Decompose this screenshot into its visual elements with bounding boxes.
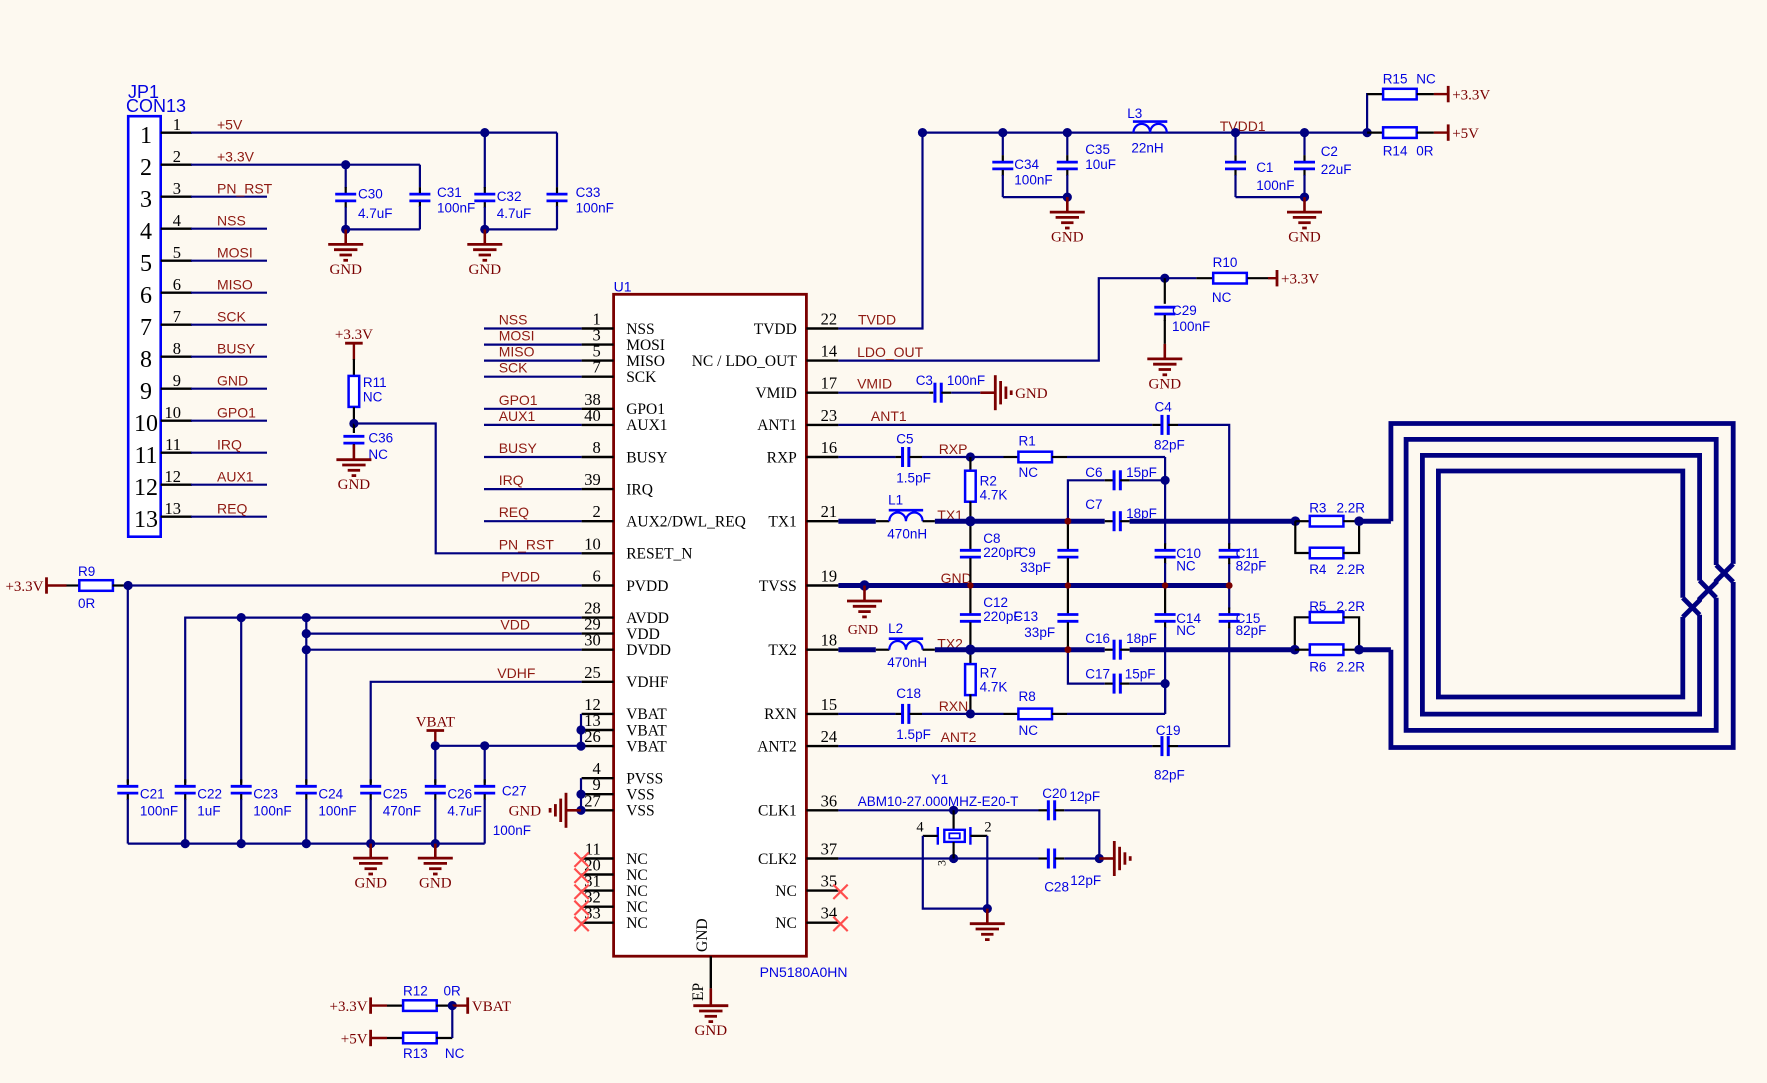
svg-text:ANT2: ANT2 — [757, 738, 797, 755]
pin 24 ANT2 — [806, 745, 838, 747]
svg-text:PN5180A0HN: PN5180A0HN — [760, 964, 848, 980]
no-connect cross pin 32 — [574, 901, 588, 915]
svg-text:NSS: NSS — [217, 213, 246, 229]
wire net SCK — [484, 376, 582, 378]
svg-text:22: 22 — [821, 310, 838, 329]
pin 34 NC — [806, 922, 838, 924]
junction — [983, 904, 992, 913]
svg-text:3: 3 — [140, 187, 152, 213]
svg-text:RESET_N: RESET_N — [626, 546, 692, 563]
svg-text:NSS: NSS — [499, 312, 528, 328]
pin 14 NC / LDO_OUT — [806, 359, 838, 361]
svg-text:0R: 0R — [78, 596, 96, 611]
svg-text:REQ: REQ — [499, 504, 529, 520]
svg-text:470nF: 470nF — [383, 804, 421, 819]
wire net REQ — [191, 516, 267, 518]
svg-text:C7: C7 — [1085, 497, 1102, 512]
no-connect cross pin 33 — [574, 917, 588, 931]
svg-text:R4: R4 — [1309, 562, 1327, 577]
capacitor C1 — [1234, 133, 1236, 156]
svg-text:7: 7 — [593, 358, 601, 377]
junction — [1161, 679, 1170, 688]
connector JP1 pin 5 — [161, 260, 192, 262]
svg-text:100nF: 100nF — [1256, 178, 1294, 193]
svg-text:ANT1: ANT1 — [757, 417, 797, 434]
svg-text:2: 2 — [140, 155, 152, 181]
junction — [1291, 516, 1301, 526]
junction — [1354, 516, 1364, 526]
ic U1 body — [614, 294, 807, 956]
capacitor C16 — [1105, 649, 1115, 651]
svg-text:ABM10-27.000MHZ-E20-T: ABM10-27.000MHZ-E20-T — [858, 794, 1019, 809]
svg-text:3: 3 — [173, 179, 181, 198]
pin 10 RESET_N — [582, 552, 614, 554]
svg-text:C17: C17 — [1085, 667, 1110, 682]
connector JP1 pin 11 — [161, 452, 192, 454]
power port +5V — [369, 1030, 372, 1046]
svg-text:GND: GND — [1288, 230, 1321, 246]
junction — [124, 581, 133, 590]
svg-text:R9: R9 — [78, 564, 95, 579]
svg-text:82pF: 82pF — [1236, 623, 1267, 638]
wire ANT1 to column — [1168, 424, 1178, 426]
svg-text:C22: C22 — [197, 787, 222, 802]
capacitor C32 — [484, 133, 486, 189]
svg-text:27: 27 — [584, 791, 601, 810]
svg-text:GND: GND — [419, 876, 452, 892]
wire column3 upper — [1164, 457, 1166, 544]
svg-text:1: 1 — [173, 115, 181, 134]
pin 27 VSS — [582, 809, 614, 811]
svg-text:30: 30 — [584, 631, 601, 650]
connector JP1 pin 3 — [161, 195, 192, 197]
svg-text:C2: C2 — [1321, 144, 1338, 159]
svg-text:MISO: MISO — [217, 277, 253, 293]
junction 4-way — [1226, 582, 1233, 589]
svg-text:39: 39 — [584, 470, 601, 489]
junction — [181, 839, 190, 848]
svg-text:C16: C16 — [1085, 631, 1110, 646]
svg-text:RXN: RXN — [764, 706, 797, 723]
no-connect cross pin 34 — [833, 917, 847, 931]
svg-text:C9: C9 — [1019, 545, 1036, 560]
svg-text:+3.3V: +3.3V — [217, 149, 255, 165]
junction — [1161, 476, 1170, 485]
junction — [431, 741, 440, 750]
wire C30-C31 ground rail — [346, 228, 420, 230]
resistor R12 — [387, 1004, 404, 1006]
ground GND — [1066, 197, 1069, 212]
junction 4-way — [1065, 646, 1072, 653]
no-connect cross pin 20 — [574, 869, 588, 883]
capacitor C17 — [1068, 650, 1105, 684]
wire ANT2 column — [1228, 563, 1230, 608]
svg-text:AVDD: AVDD — [626, 610, 669, 627]
wire net GPO1 — [191, 420, 267, 422]
svg-text:82pF: 82pF — [1236, 559, 1267, 574]
pin 25 VDHF — [582, 681, 614, 683]
pin 12 VBAT — [582, 713, 614, 715]
svg-text:8: 8 — [593, 438, 601, 457]
svg-text:VSS: VSS — [626, 787, 654, 804]
svg-text:IRQ: IRQ — [217, 437, 242, 453]
no-connect cross pin 31 — [574, 885, 588, 899]
capacitor C8 — [969, 521, 971, 549]
svg-text:2.2R: 2.2R — [1337, 659, 1366, 674]
pin 17 VMID — [806, 392, 838, 394]
connector JP1 pin 13 — [161, 516, 192, 518]
svg-text:ANT1: ANT1 — [871, 408, 907, 424]
svg-text:4.7uF: 4.7uF — [447, 804, 482, 819]
wire net GND — [191, 388, 267, 390]
svg-text:C32: C32 — [497, 189, 522, 204]
svg-text:R2: R2 — [980, 474, 997, 489]
junction — [966, 452, 975, 461]
svg-text:7: 7 — [173, 307, 181, 326]
connector JP1 pin 1 — [161, 131, 192, 133]
wire ANT1 — [838, 424, 1152, 426]
svg-text:GND: GND — [694, 918, 711, 952]
wire TX2 thick — [838, 647, 875, 652]
svg-text:GND: GND — [329, 262, 362, 278]
pin 8 BUSY — [582, 456, 614, 458]
svg-text:C35: C35 — [1085, 142, 1110, 157]
svg-text:VDD: VDD — [500, 617, 530, 633]
svg-text:2: 2 — [173, 147, 181, 166]
svg-text:PVSS: PVSS — [626, 771, 663, 788]
svg-text:R11: R11 — [363, 375, 387, 390]
svg-text:LDO_OUT: LDO_OUT — [857, 344, 924, 360]
resistor R11 — [353, 359, 355, 376]
svg-text:PVDD: PVDD — [626, 578, 668, 595]
svg-text:19: 19 — [821, 567, 838, 586]
wire LDO_OUT — [838, 278, 1164, 360]
pin 32 NC — [582, 906, 614, 908]
svg-text:CON13: CON13 — [126, 96, 186, 116]
wire net MISO — [191, 292, 267, 294]
svg-text:AUX1: AUX1 — [499, 408, 536, 424]
svg-text:R14: R14 — [1383, 144, 1408, 159]
svg-text:9: 9 — [140, 379, 152, 405]
junction — [349, 419, 358, 428]
svg-text:C27: C27 — [502, 784, 527, 799]
svg-text:GPO1: GPO1 — [499, 392, 538, 408]
svg-text:15: 15 — [821, 695, 838, 714]
svg-text:22nH: 22nH — [1131, 141, 1163, 156]
capacitor C27 — [484, 779, 486, 785]
wire TX1 to antenna thick — [1359, 519, 1391, 524]
svg-text:C12: C12 — [983, 595, 1008, 610]
svg-text:GND: GND — [1015, 386, 1048, 402]
junction — [480, 225, 489, 234]
power port +3.3V — [45, 577, 48, 593]
svg-text:GND: GND — [941, 570, 972, 586]
junction — [965, 645, 975, 655]
junction — [576, 725, 585, 734]
svg-text:C3: C3 — [916, 373, 933, 388]
svg-text:100nF: 100nF — [493, 823, 531, 838]
svg-text:2.2R: 2.2R — [1337, 562, 1366, 577]
ground GND at VSS — [566, 809, 581, 812]
svg-text:C30: C30 — [358, 186, 383, 201]
svg-text:NC / LDO_OUT: NC / LDO_OUT — [692, 353, 798, 370]
svg-text:NC: NC — [445, 1046, 465, 1061]
svg-text:C23: C23 — [253, 787, 278, 802]
wire AVDD — [185, 618, 581, 783]
svg-text:4.7K: 4.7K — [980, 488, 1008, 503]
power port +5V — [1434, 131, 1448, 133]
ground GND — [369, 844, 372, 859]
svg-text:8: 8 — [140, 347, 152, 373]
power port +3.3V — [345, 342, 363, 345]
svg-text:EP: EP — [690, 983, 707, 1001]
pin 31 NC — [582, 889, 614, 891]
svg-text:GPO1: GPO1 — [626, 401, 665, 418]
svg-text:SCK: SCK — [217, 309, 246, 325]
svg-text:R7: R7 — [980, 666, 997, 681]
wire +5V — [191, 132, 557, 134]
ground GND — [344, 229, 347, 244]
wire C34-C35 rail — [1003, 196, 1068, 198]
power port +3.3V — [1268, 277, 1277, 279]
svg-text:TX1: TX1 — [768, 514, 796, 531]
junction 4-way — [1162, 582, 1168, 588]
wire net MISO — [484, 360, 582, 362]
capacitor C31 — [419, 165, 421, 187]
pin 40 AUX1 — [582, 424, 614, 426]
svg-text:Y1: Y1 — [931, 771, 948, 787]
svg-text:REQ: REQ — [217, 501, 247, 517]
svg-text:100nF: 100nF — [1014, 172, 1052, 187]
wire VBAT pin strap — [580, 714, 582, 746]
pin 9 VSS — [582, 793, 614, 795]
svg-text:AUX2/DWL_REQ: AUX2/DWL_REQ — [626, 514, 746, 531]
capacitor C4 — [1160, 415, 1163, 435]
svg-text:L1: L1 — [888, 493, 903, 508]
svg-text:18pF: 18pF — [1126, 631, 1157, 646]
svg-text:100nF: 100nF — [437, 201, 475, 216]
svg-text:10: 10 — [134, 411, 158, 437]
capacitor C13 — [1067, 586, 1069, 614]
svg-text:470nH: 470nH — [887, 527, 927, 542]
svg-text:TVDD: TVDD — [754, 321, 797, 338]
pin 23 ANT1 — [806, 424, 838, 426]
pin 4 PVSS — [582, 777, 614, 779]
wire PN_RST to chip — [354, 424, 582, 554]
pin 19 TVSS — [806, 584, 838, 586]
junction — [1300, 128, 1309, 137]
ground GND at TVSS — [863, 586, 866, 602]
junction — [302, 629, 311, 638]
svg-text:36: 36 — [821, 791, 838, 810]
resistor R9 — [67, 584, 80, 586]
svg-text:100nF: 100nF — [947, 373, 985, 388]
pin 13 VBAT — [582, 729, 614, 731]
svg-text:R12: R12 — [403, 983, 428, 998]
capacitor C30 — [345, 165, 347, 188]
capacitor C33 — [556, 133, 558, 188]
junction — [859, 580, 869, 590]
svg-text:+3.3V: +3.3V — [1452, 87, 1490, 103]
svg-text:GND: GND — [354, 876, 387, 892]
connector JP1 pin 4 — [161, 227, 192, 229]
wire TX1 thick — [838, 519, 875, 524]
svg-text:100nF: 100nF — [318, 804, 356, 819]
svg-text:C29: C29 — [1172, 303, 1197, 318]
svg-text:C33: C33 — [576, 185, 601, 200]
wire net BUSY — [191, 356, 267, 358]
svg-text:L3: L3 — [1127, 106, 1142, 121]
crystal pin 2 — [970, 835, 987, 837]
wire VMID — [838, 392, 929, 394]
resistor R13 — [387, 1037, 404, 1039]
svg-text:+5V: +5V — [341, 1031, 368, 1047]
svg-text:12: 12 — [134, 475, 158, 501]
wire TX2 thick to R6 — [1130, 647, 1295, 652]
svg-text:220pF: 220pF — [983, 545, 1021, 560]
junction — [1063, 128, 1072, 137]
svg-text:NC: NC — [1212, 290, 1232, 305]
svg-text:BUSY: BUSY — [499, 440, 538, 456]
wire TX1 thick to C7 — [935, 519, 1105, 524]
capacitor C34 — [1002, 133, 1004, 156]
svg-text:7: 7 — [140, 315, 152, 341]
svg-text:C13: C13 — [1013, 609, 1038, 624]
svg-text:NC: NC — [1176, 623, 1196, 638]
svg-text:5: 5 — [140, 251, 152, 277]
connector JP1 body — [128, 116, 161, 537]
resistor R8 — [970, 713, 1003, 715]
svg-text:2.2R: 2.2R — [1337, 500, 1366, 515]
capacitor C26 — [434, 779, 436, 785]
pin 30 DVDD — [582, 649, 614, 651]
svg-text:RXP: RXP — [767, 449, 797, 466]
pin 7 SCK — [582, 376, 614, 378]
connector JP1 pin 7 — [161, 324, 192, 326]
svg-text:2.2R: 2.2R — [1337, 599, 1366, 614]
svg-text:C36: C36 — [368, 430, 393, 445]
svg-text:NSS: NSS — [626, 321, 654, 338]
svg-text:TVDD: TVDD — [858, 312, 896, 328]
svg-text:1uF: 1uF — [197, 804, 220, 819]
svg-text:NC: NC — [626, 899, 648, 916]
svg-text:1.5pF: 1.5pF — [896, 471, 931, 486]
svg-text:CLK2: CLK2 — [758, 851, 797, 868]
capacitor C3 — [929, 392, 933, 394]
capacitor C22 — [184, 779, 186, 785]
wire C1-C2 rail — [1236, 196, 1305, 198]
svg-text:0R: 0R — [1416, 144, 1434, 159]
svg-text:9: 9 — [173, 371, 181, 390]
junction 4-way — [1065, 518, 1072, 525]
svg-text:18: 18 — [821, 631, 838, 650]
antenna crossover jog D-C — [1683, 598, 1700, 615]
wire TVSS thick — [838, 583, 1229, 588]
crystal pin 4 — [923, 835, 938, 837]
svg-text:12pF: 12pF — [1069, 789, 1100, 804]
svg-text:33pF: 33pF — [1020, 560, 1051, 575]
wire VSS pin strap — [580, 778, 582, 810]
wire R13 to VBAT junction — [451, 1006, 453, 1038]
wire C32-C33 ground rail — [485, 228, 557, 230]
svg-text:VDHF: VDHF — [626, 674, 669, 691]
svg-text:8: 8 — [173, 339, 181, 358]
antenna loop inner — [1438, 471, 1682, 697]
svg-text:IRQ: IRQ — [626, 481, 653, 498]
svg-text:TVDD1: TVDD1 — [1220, 118, 1266, 134]
junction — [480, 128, 489, 137]
svg-text:NC: NC — [1019, 465, 1039, 480]
svg-text:C19: C19 — [1156, 723, 1181, 738]
svg-text:DVDD: DVDD — [626, 642, 671, 659]
svg-text:PN_RST: PN_RST — [217, 181, 273, 197]
wire +3.3V — [191, 164, 420, 166]
capacitor C15 — [1228, 608, 1230, 614]
svg-text:25: 25 — [584, 663, 601, 682]
svg-text:GND: GND — [1149, 376, 1182, 392]
pin 35 NC — [806, 889, 838, 891]
wire net MOSI — [191, 260, 267, 262]
svg-text:CLK1: CLK1 — [758, 803, 797, 820]
svg-text:C6: C6 — [1085, 465, 1102, 480]
resistor R10 — [1165, 277, 1197, 279]
junction — [1354, 645, 1364, 655]
wire CLK2 — [838, 857, 1038, 859]
junction 4-way — [1065, 582, 1071, 588]
svg-text:C18: C18 — [896, 686, 921, 701]
power port +3.3V — [1434, 93, 1448, 95]
wire C27 riser — [484, 746, 486, 783]
capacitor C20 — [1039, 809, 1049, 811]
svg-text:GND: GND — [1051, 230, 1084, 246]
svg-text:VDHF: VDHF — [497, 665, 535, 681]
svg-text:VSS: VSS — [626, 803, 654, 820]
wire VDHF — [371, 682, 582, 783]
capacitor C10 — [1164, 543, 1166, 549]
inductor L2 — [876, 649, 890, 651]
svg-text:+5V: +5V — [1452, 126, 1479, 142]
junction — [576, 790, 585, 799]
wire net IRQ — [191, 452, 267, 454]
svg-text:100nF: 100nF — [140, 804, 178, 819]
svg-text:NC: NC — [1416, 72, 1436, 87]
svg-text:R10: R10 — [1213, 255, 1238, 270]
resistor R7 — [969, 650, 971, 665]
ground GND — [986, 909, 989, 924]
inductor L3 — [1133, 124, 1166, 133]
svg-text:R8: R8 — [1019, 689, 1036, 704]
ground GND sideways — [1099, 857, 1114, 860]
svg-text:13: 13 — [134, 507, 158, 533]
capacitor C36 — [353, 424, 355, 434]
svg-text:MOSI: MOSI — [217, 245, 253, 261]
wire net REQ — [484, 520, 582, 522]
junction — [1363, 128, 1372, 137]
svg-text:470nH: 470nH — [887, 655, 927, 670]
svg-text:40: 40 — [584, 406, 601, 425]
connector JP1 pin 12 — [161, 484, 192, 486]
resistor R6 — [1295, 649, 1310, 651]
svg-text:RXP: RXP — [939, 441, 968, 457]
svg-text:PN_RST: PN_RST — [499, 536, 555, 552]
svg-text:GPO1: GPO1 — [217, 405, 256, 421]
resistor R14 — [1367, 132, 1383, 134]
svg-text:+3.3V: +3.3V — [330, 999, 368, 1015]
svg-text:NC: NC — [1019, 723, 1039, 738]
junction — [966, 709, 975, 718]
svg-text:VBAT: VBAT — [416, 715, 455, 731]
svg-text:3: 3 — [935, 860, 949, 866]
